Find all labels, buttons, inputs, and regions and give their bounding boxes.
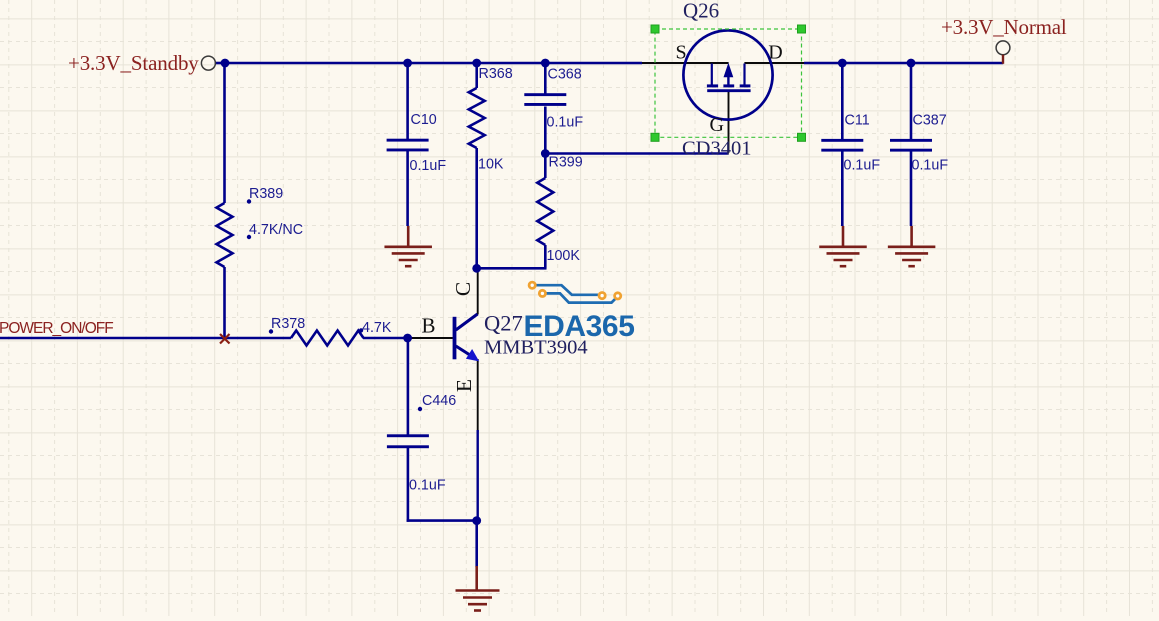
svg-text:POWER_ON/OFF: POWER_ON/OFF [0,320,113,337]
value 0.1uF C387 [912,158,949,174]
wire C11 branch upper [841,63,844,140]
junction C387 tap [907,59,916,68]
svg-text:S: S [676,41,687,63]
anchor dot R389 [247,199,251,203]
svg-text:C446: C446 [422,393,456,409]
pin label S [676,41,687,63]
wire C387 branch lower [910,152,913,227]
wire emitter pin to junction [477,430,479,521]
capacitor C446 body [387,434,429,448]
designator Q27 [484,311,523,336]
value 4.7K/NC [249,222,303,238]
svg-text:R378: R378 [271,316,305,332]
junction C10 tap [403,59,412,68]
pin B of Q27 (black) [408,337,453,339]
transistor Q26 MOSFET symbol [683,30,772,119]
terminal +3.3V_Standby (circle) [201,56,215,70]
value 0.1uF C11 [844,158,881,174]
designator R378 [271,316,305,332]
value 0.1uF C446 [409,478,446,494]
logo EDA365 traces [535,285,618,302]
wire C368 top stub [544,63,547,94]
net label +3.3V_Standby [68,51,199,75]
svg-text:C368: C368 [548,67,582,83]
pin label B [422,314,436,338]
svg-text:4.7K/NC: 4.7K/NC [249,222,303,238]
wire POWER_ON/OFF horizontal [0,337,291,340]
svg-text:B: B [422,314,436,338]
anchor dot R378 [269,329,273,333]
svg-text:E: E [452,379,476,392]
designator C446 [422,393,456,409]
selection box with handles around Q26 [651,25,806,141]
junction C368 tap [541,59,550,68]
value 10K [478,157,504,173]
svg-text:0.1uF: 0.1uF [844,158,881,174]
wire R368 bottom to junction [475,148,478,269]
wire C446 to emitter junction [407,519,478,522]
svg-text:MMBT3904: MMBT3904 [484,337,588,359]
svg-text:0.1uF: 0.1uF [547,115,584,131]
ground under Q27 emitter [456,566,500,611]
svg-text:+3.3V_Normal: +3.3V_Normal [941,15,1067,39]
designator C10 [411,112,437,128]
junction emitter node [472,516,481,525]
pin label E (rotated) [452,379,476,392]
wire C10 branch lower [406,151,409,226]
junction standby rail [221,59,230,68]
pin label C (rotated) [451,282,475,296]
designator C368 [548,67,582,83]
ground under C10 [384,226,432,266]
wire top rail +3.3V_Standby segment [224,62,642,65]
designator C387 [913,113,947,129]
wire C368 bottom / R399 top [544,107,547,179]
svg-text:C: C [451,282,475,296]
terminal +3.3V_Normal (circle + stub) [996,41,1010,64]
resistor R378 body [291,331,364,346]
svg-text:Q26: Q26 [683,0,719,23]
pin S of Q26 (horizontal black, into arrow tip) [642,62,729,64]
svg-text:G: G [710,114,724,136]
junction R368 tap [472,59,481,68]
wire bottom horizontal R368-R399 [476,267,547,270]
wire left vertical upper (rail to R389) [223,63,226,203]
wire C387 branch upper [910,63,913,140]
pin label D [768,41,782,63]
pin G of Q26 (vertical black) [728,92,730,153]
svg-text:0.1uF: 0.1uF [912,158,949,174]
wire gate horizontal [545,152,728,155]
svg-text:4.7K: 4.7K [362,320,392,336]
svg-text:R389: R389 [249,186,283,202]
pin C of Q27 (vertical black) [477,267,479,315]
svg-text:+3.3V_Standby: +3.3V_Standby [68,51,199,75]
capacitor C11 body [821,139,863,152]
wire C10 branch upper [406,63,409,140]
wire R399 bottom [544,245,547,268]
pin E of Q27 (vertical black) [477,359,479,432]
designator Q26 [683,0,719,23]
wire emitter junction down to ground [475,521,478,567]
wire C11 branch lower [841,152,844,227]
svg-text:Q27: Q27 [484,311,523,336]
wire C446 top (base junction down) [407,338,410,436]
designator R368 [479,66,513,82]
svg-text:R399: R399 [549,155,583,171]
value 4.7K [362,320,392,336]
logo EDA365 pads [529,282,621,299]
junction collector node [472,264,481,273]
pin D of Q26 (horizontal black) [744,62,804,64]
svg-text:0.1uF: 0.1uF [410,158,447,174]
svg-text:0.1uF: 0.1uF [409,478,446,494]
anchor dot C446 [418,407,422,411]
resistor R399 body [537,178,553,245]
resistor R368 body [469,88,485,148]
svg-text:C10: C10 [411,112,437,128]
wire top rail right segment to +3.3V_Normal [804,62,1003,65]
svg-text:D: D [768,41,782,63]
pin label G [710,114,724,136]
value MMBT3904 [484,337,588,359]
designator C11 [845,113,870,129]
wire C446 bottom [407,448,410,522]
wire stub from standby terminal [215,62,226,65]
no-ERC cross marker at POWER_ON/OFF junction [220,334,230,344]
junction base node [403,334,412,343]
capacitor C368 body [524,93,566,106]
anchor dot 4.7K/NC [247,235,251,239]
capacitor C10 body [387,139,429,152]
ground under C11 [819,226,867,266]
logo EDA365 text [524,310,635,343]
value 100K [547,248,581,264]
net label POWER_ON/OFF [0,320,113,337]
svg-text:R368: R368 [479,66,513,82]
value 0.1uF C10 [410,158,447,174]
svg-text:CD3401: CD3401 [682,138,751,160]
wire R368 top stub [475,63,478,88]
svg-text:10K: 10K [478,157,504,173]
ground under C387 [888,226,936,266]
transistor Q27 BJT symbol [453,314,480,361]
junction gate node [541,149,550,158]
capacitor C387 body [890,139,932,152]
designator R399 [549,155,583,171]
resistor R389 body [217,203,233,267]
wire left vertical lower (R389 to POWER_ON/OFF) [223,267,226,339]
svg-text:C387: C387 [913,113,947,129]
value 0.1uF C368 [547,115,584,131]
designator R389 [249,186,283,202]
value CD3401 [682,138,751,160]
anchor dot 4.7K [359,328,363,332]
net label +3.3V_Normal [941,15,1067,39]
wire R378 to base junction [363,337,409,340]
junction C11 tap [838,59,847,68]
svg-text:100K: 100K [547,248,581,264]
svg-text:C11: C11 [845,113,870,129]
